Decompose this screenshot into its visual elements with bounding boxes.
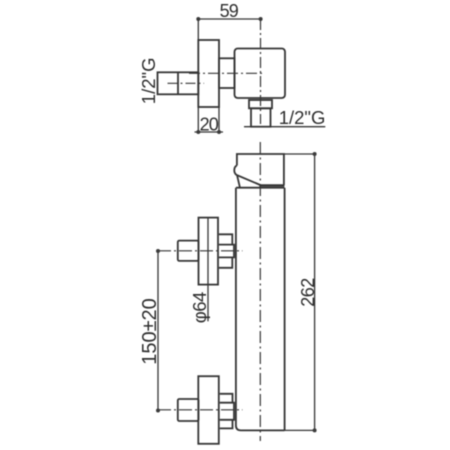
lower flange [198,376,219,444]
dimension line 59 [196,17,262,21]
connector between flange and valve body [219,58,235,88]
pipe fitting division line [177,72,179,94]
upper connection centerline [158,250,243,252]
inlet pipe (side view) [158,72,199,94]
lower connection centerline [158,409,243,411]
lower hex nut [220,394,234,429]
svg-text:φ64: φ64 [189,292,210,323]
262 bottom extension line [285,429,316,431]
upper flange [199,218,219,285]
leader line bottom [244,126,325,128]
phi64 extension line [207,218,209,322]
upper inlet pipe [178,241,199,261]
valve horizontal centerline [189,72,265,74]
262 top extension line [284,153,316,155]
extension line left of 59 [197,19,199,40]
svg-text:20: 20 [200,115,219,135]
handle lever edge [234,166,260,186]
outlet pipe [251,108,271,126]
valve vertical centerline [260,19,262,124]
dimension line 262 [313,152,317,432]
pipe centerline [168,82,205,84]
dimension line 150±20 [156,249,160,413]
dimension line 20 [195,130,224,134]
handle lever second edge [237,176,240,188]
mixer body column [236,188,285,431]
body top edge [236,187,285,189]
valve body square (side view) [235,49,286,99]
svg-text:1/2"G: 1/2"G [279,107,326,128]
svg-text:262: 262 [298,278,318,307]
extension lines 20 [197,107,199,133]
upper hex nut [219,234,234,267]
outlet nut [249,100,272,108]
lower inlet pipe [178,399,199,421]
valve cap thick line [259,184,284,187]
body vertical centerline [259,142,261,441]
svg-text:59: 59 [220,1,239,21]
handle (front view) [237,154,284,185]
svg-text:150±20: 150±20 [139,298,161,365]
svg-text:1/2"G: 1/2"G [138,58,159,105]
wall flange (side view) [198,40,219,107]
